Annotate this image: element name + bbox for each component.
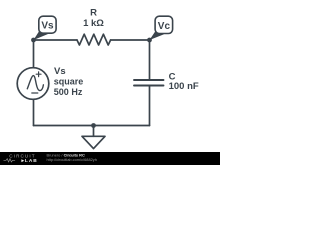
probe Vs pointer tail xyxy=(34,29,49,40)
node dot at ground xyxy=(91,123,96,128)
wire left vertical upper xyxy=(33,40,35,68)
svg-text:square: square xyxy=(54,77,84,87)
capacitor C1 bottom plate xyxy=(134,85,164,87)
wire bottom horizontal xyxy=(34,125,150,127)
voltage source V1 waveform glyph xyxy=(27,76,43,91)
svg-text:Vs: Vs xyxy=(41,21,54,32)
node dot at Vc probe xyxy=(147,38,152,43)
svg-text:1 kΩ: 1 kΩ xyxy=(83,18,104,29)
svg-text:▸LAB: ▸LAB xyxy=(21,158,38,164)
wire top-left horizontal xyxy=(34,39,78,41)
svg-text:Vs: Vs xyxy=(54,66,66,77)
probe Vs label box xyxy=(39,16,56,33)
svg-text:500 Hz: 500 Hz xyxy=(54,87,83,97)
svg-text:CIRCUIT: CIRCUIT xyxy=(9,154,35,159)
probe Vc pointer tail xyxy=(150,30,165,41)
probe Vc label box xyxy=(155,16,173,33)
resistor R1 zigzag body xyxy=(77,34,111,45)
wire left vertical lower xyxy=(33,99,35,125)
wire right vertical lower xyxy=(149,86,151,126)
wire top-right horizontal xyxy=(111,39,150,41)
voltage source V1 circle xyxy=(17,68,49,100)
capacitor C1 top plate xyxy=(134,79,164,81)
voltage source V1 minus sign xyxy=(32,92,38,94)
wire ground stem xyxy=(93,126,95,137)
wire right vertical upper xyxy=(149,40,151,80)
ground symbol triangle xyxy=(82,136,105,148)
svg-text:100 nF: 100 nF xyxy=(169,81,199,92)
logo waveform xyxy=(4,159,16,162)
svg-text:http://circuitlab.com/c/6882yh: http://circuitlab.com/c/6882yh xyxy=(47,157,97,162)
watermark bar xyxy=(0,152,220,165)
node dot at Vs probe xyxy=(31,38,36,43)
svg-text:Vc: Vc xyxy=(158,21,171,32)
svg-text:R: R xyxy=(90,7,97,18)
voltage source V1 plus sign xyxy=(36,72,41,77)
